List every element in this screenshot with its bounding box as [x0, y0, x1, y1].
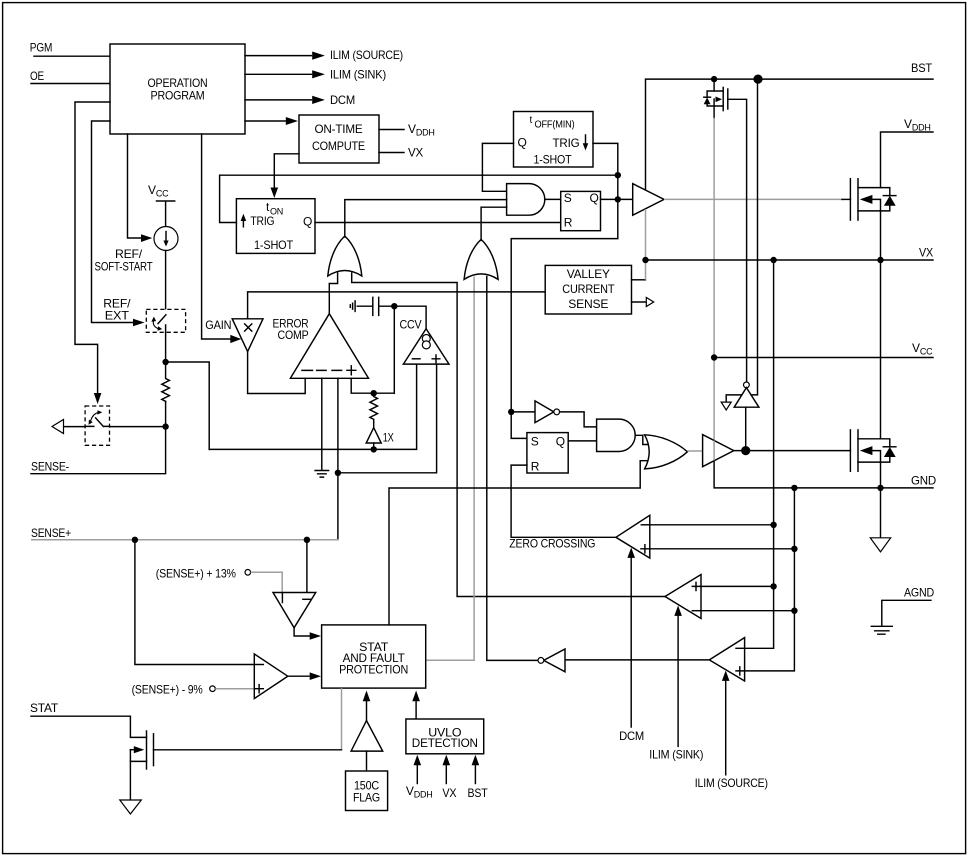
wire error comp plus input to feedback node [351, 378, 394, 393]
wire operation program to ext switch [75, 102, 110, 404]
wire SENSE+ (gray) [31, 539, 339, 541]
wire VX output of on-time compute [379, 152, 404, 154]
svg-text:AGND: AGND [904, 586, 934, 600]
svg-text:FLAG: FLAG [353, 791, 380, 805]
ground arrow below STAT MOSFET [120, 800, 142, 814]
wire STAT gate from fault block (gray) [341, 688, 343, 749]
label GND (pin) [911, 474, 937, 488]
label VCC (reference supply) [148, 183, 169, 199]
driver low-side [703, 435, 734, 467]
junction VX driver [642, 257, 648, 263]
input label PGM [30, 41, 53, 55]
svg-text:1X: 1X [383, 430, 394, 444]
junction zero crossing plus node [791, 546, 797, 552]
block UVLO DETECTION [406, 719, 484, 754]
wire soft-start node to reference rail [166, 362, 210, 449]
svg-text:DCM: DCM [330, 93, 355, 107]
svg-text:SOFT-START: SOFT-START [95, 260, 154, 274]
junction feedback node [371, 390, 377, 396]
svg-text:EXT: EXT [105, 309, 130, 323]
wire valley sense output arrow [632, 298, 654, 307]
wire UVLO to stat block [412, 691, 420, 720]
label BST (UVLO input) [468, 786, 489, 800]
resistor compensation [370, 393, 378, 422]
wire cap to CCV output [379, 306, 426, 329]
wire valley sense to VX node (gray riser) [632, 279, 646, 281]
wire driver1 output to high-side gate (gray) [664, 198, 843, 200]
svg-text:VX: VX [408, 146, 423, 160]
label SENSE+ [31, 526, 71, 540]
wire AND to SR latch S [545, 198, 561, 200]
wire resistor to sense node [165, 402, 167, 427]
junction driver2 output [741, 446, 750, 455]
wire BST FET gate to inverter [728, 99, 747, 382]
svg-text:ILIM (SINK): ILIM (SINK) [330, 68, 386, 82]
wire sense+ riser to error comp [337, 378, 339, 540]
svg-text:Q: Q [590, 191, 599, 205]
svg-text:t: t [530, 115, 533, 126]
inverter BST refresh [721, 79, 759, 410]
wire -9% to UVP comparator (gray) [215, 688, 254, 690]
svg-text:ZERO CROSSING: ZERO CROSSING [509, 536, 595, 550]
wire on-time compute to tON trigger [271, 154, 300, 198]
and-gate AND2 [597, 419, 636, 451]
supply bar VCC [157, 201, 175, 227]
label ILIM (SINK) [649, 747, 703, 761]
wire ext switch to off-page buffer [64, 426, 86, 428]
wire VX rail [646, 259, 934, 261]
label ILIM (SOURCE) [695, 776, 768, 790]
svg-text:TRIG: TRIG [553, 136, 580, 150]
wire Q feedback to lower latch S [511, 199, 618, 438]
wire reference rail to CCV minus [209, 364, 416, 449]
block OPERATION PROGRAM [110, 44, 245, 134]
label VX (pin) [919, 246, 933, 260]
label VX (UVLO input) [442, 786, 456, 800]
label ILIM (SINK) [330, 68, 386, 82]
wire operation program to GAIN input [202, 134, 242, 343]
wire VDDH rail [881, 132, 934, 188]
svg-text:DETECTION: DETECTION [412, 736, 478, 750]
wire SR Q to high-side driver [601, 198, 633, 200]
wire cap node riser [393, 306, 395, 393]
comparator OVP (down) [273, 593, 316, 628]
svg-text:SENSE-: SENSE- [31, 459, 69, 473]
wire ILIM SINK arrow [674, 606, 682, 747]
wire OR1 output to AND input [345, 200, 507, 237]
svg-text:PROTECTION: PROTECTION [339, 662, 408, 676]
svg-text:SENSE+: SENSE+ [31, 526, 71, 540]
wire inverter to AND2 [560, 412, 597, 427]
svg-text:COMPUTE: COMPUTE [312, 139, 365, 153]
wire zero crossing output to SR2 R [511, 465, 616, 537]
svg-text:(SENSE+) - 9%: (SENSE+) - 9% [132, 683, 203, 697]
svg-text:GND: GND [911, 474, 937, 488]
amplifier GAIN [232, 319, 263, 352]
svg-text:SENSE: SENSE [568, 297, 608, 311]
wire GAIN output to error comp input [248, 352, 306, 394]
wire SENSE+ to UVP comparator [135, 540, 254, 665]
label SENSE- [31, 459, 69, 473]
wire ILIM(SOURCE) output [245, 52, 325, 60]
wire SENSE+ to OVP comparator [306, 540, 308, 604]
comparator UVP (right) [254, 654, 287, 699]
wire sense node to ext switch [109, 426, 165, 428]
svg-text:GAIN: GAIN [205, 318, 231, 332]
inverter low-side blank [538, 649, 565, 672]
wire VX into UVLO [443, 755, 451, 784]
block 150C FLAG [346, 771, 388, 811]
junction sink minus node [791, 608, 797, 614]
label DCM [330, 93, 355, 107]
buffer 1X [366, 422, 381, 443]
label ERROR COMP [273, 317, 309, 343]
sr-latch main [561, 191, 601, 231]
transistor high-side MOSFET [850, 179, 896, 260]
wire VDDH into UVLO [414, 755, 422, 784]
svg-text:CURRENT: CURRENT [562, 282, 615, 296]
svg-text:(SENSE+) + 13%: (SENSE+) + 13% [156, 566, 236, 580]
driver high-side [633, 184, 664, 216]
wire 1X output to reference rail [373, 443, 375, 449]
label VDDH (UVLO input) [406, 784, 433, 800]
label VCC (pin) [912, 341, 933, 357]
junction cap node [391, 303, 397, 309]
label VX [408, 146, 423, 160]
wire TRIG node to Q line [617, 175, 619, 199]
wire inverter input from gate node [745, 407, 747, 450]
junction 1X output [371, 446, 377, 452]
wire OVP comparator to stat block [294, 628, 321, 640]
wire DCM output [245, 96, 325, 104]
resistor soft-start [162, 362, 170, 402]
svg-text:COMP: COMP [278, 328, 309, 342]
wire gate line [154, 749, 342, 751]
ground at error comp [315, 471, 329, 478]
wire source comparator minus input [745, 260, 774, 648]
wire driver1 to VX (gray) [645, 209, 647, 260]
label AGND [904, 586, 934, 600]
label VDDH (pin) [904, 117, 931, 133]
label STAT [30, 701, 59, 715]
junction inverter input node [508, 409, 514, 415]
wire tON TRIG feedback loop [220, 175, 618, 222]
svg-text:R: R [564, 216, 573, 230]
wire error comp output to OR1 input [329, 273, 337, 314]
svg-text:Q: Q [556, 435, 565, 449]
wire OE to operation program [31, 83, 110, 85]
junction CCV plus node [335, 470, 341, 476]
label VDDH [408, 122, 435, 138]
junction soft-start node [162, 359, 168, 365]
svg-text:PGM: PGM [30, 41, 53, 55]
wire switch1 to soft-start node [165, 325, 167, 362]
buffer 150C flag [351, 721, 383, 752]
block VALLEY CURRENT SENSE [545, 265, 631, 314]
junction SENSE+ right [304, 537, 310, 543]
input label OE [30, 69, 44, 83]
block STAT AND FAULT PROTECTION [322, 625, 426, 688]
or-gate OR3 [645, 435, 688, 469]
label BST [911, 61, 933, 75]
or-gate OR1 (min off-time OR) [328, 236, 362, 276]
svg-text:R: R [531, 460, 540, 474]
wire GAIN top to valley current sense [248, 292, 546, 319]
sr-latch zero-cross [527, 433, 568, 474]
junction VX sense [770, 257, 776, 263]
svg-text:BST: BST [911, 61, 933, 75]
wire DCM enable arrow [627, 548, 635, 728]
wire source comparator plus input [745, 488, 795, 671]
svg-text:STAT: STAT [30, 701, 59, 715]
svg-text:S: S [531, 435, 539, 449]
junction Q node [615, 196, 621, 202]
wire +13% to OVP comparator (gray) [251, 572, 283, 592]
label ZERO CROSSING [509, 536, 595, 550]
wire VDDH output of on-time compute [379, 129, 404, 131]
clamp amp CCV [403, 329, 449, 364]
svg-text:ILIM (SOURCE): ILIM (SOURCE) [330, 48, 403, 62]
junction TRIG node [615, 172, 621, 178]
wire CCV plus input [338, 364, 437, 473]
wire VCC rail [714, 357, 933, 359]
node circle +13% [245, 570, 251, 576]
transistor BST switch FET [704, 79, 728, 118]
switch EXT ref [85, 406, 109, 445]
wire 150C box to buffer [366, 751, 368, 771]
svg-text:VX: VX [442, 786, 456, 800]
wire ILIM SOURCE arrow [722, 671, 730, 775]
svg-text:S: S [564, 191, 572, 205]
wire current source to switch1 [165, 251, 167, 313]
wire inverted comparator to OR2 input [487, 277, 538, 661]
ground AGND earth [871, 626, 892, 634]
svg-text:1-SHOT: 1-SHOT [254, 238, 294, 252]
svg-text:1-SHOT: 1-SHOT [534, 153, 573, 167]
wire zero crossing plus input [650, 548, 795, 550]
junction sense- node [162, 423, 168, 429]
one-shot tON 1-SHOT [236, 199, 315, 254]
junction BST FET drain [711, 76, 717, 82]
wire tOFF Q to AND gate [482, 143, 513, 191]
wire PGM to operation program [34, 55, 110, 57]
wire AGND stub [882, 600, 931, 626]
junction SENSE+ left [132, 537, 138, 543]
svg-text:Q: Q [303, 215, 312, 229]
svg-text:ON-TIME: ON-TIME [315, 122, 363, 136]
wire sink comparator plus input [701, 585, 774, 587]
junction GND FET [877, 485, 883, 491]
wire error comp input to analog ground [321, 378, 323, 469]
junction BST inverter supply [753, 75, 762, 84]
svg-text:VX: VX [919, 246, 933, 260]
label CCV [400, 317, 422, 331]
label 1X [383, 430, 394, 444]
wire current-limit comparator output to OR1 input [352, 273, 665, 597]
comparator ILIM SOURCE [709, 638, 744, 681]
svg-text:TRIG: TRIG [250, 214, 274, 228]
and-gate U1 main pulse AND [507, 184, 545, 216]
wire 150C flag to stat block [363, 691, 371, 721]
current source REF/SOFT-START [154, 227, 178, 251]
ground arrow below GND rail [870, 488, 890, 552]
capacitor compensation [350, 297, 378, 315]
label (SENSE+) + 13% [156, 566, 236, 580]
label (SENSE+) - 9% [132, 683, 203, 697]
one-shot tOFF(MIN) 1-SHOT [514, 112, 594, 168]
junction GND sense [791, 485, 797, 491]
wire BST into UVLO [472, 755, 480, 784]
junction VX FET [877, 257, 883, 263]
inverter Q-bar [511, 401, 559, 423]
wire tOFF TRIG from Q node [593, 143, 618, 175]
wire operation program to on-time compute [245, 117, 298, 125]
wire OR3 to low-side driver (gray) [687, 450, 702, 452]
svg-text:DCM: DCM [619, 729, 644, 743]
wire operation program to switch1 [92, 121, 145, 326]
label DCM (bottom) [619, 729, 644, 743]
wire tON Q to SR latch R [315, 222, 561, 224]
svg-text:ILIM (SINK): ILIM (SINK) [649, 747, 703, 761]
svg-text:OFF(MIN): OFF(MIN) [535, 119, 575, 131]
wire source comparator output to inverter [565, 659, 709, 661]
label REF/SOFT-START [95, 247, 154, 274]
off-page connector triangle [52, 420, 64, 434]
svg-text:ILIM (SOURCE): ILIM (SOURCE) [695, 776, 768, 790]
svg-text:Q: Q [518, 136, 527, 150]
switch REF/EXT select [146, 309, 185, 332]
comparator ILIM SINK [665, 575, 701, 619]
svg-text:VALLEY: VALLEY [567, 267, 610, 281]
wire AND2 to OR3 [635, 435, 649, 444]
wire STAT fault to OR2 input (gray) [426, 277, 474, 661]
junction sink plus node [770, 583, 776, 589]
block ON-TIME COMPUTE [299, 115, 379, 163]
wire ILIM(SINK) output [245, 70, 325, 78]
svg-text:BST: BST [468, 786, 489, 800]
wire zero crossing minus input [650, 524, 774, 526]
wire sink comparator minus input [701, 610, 794, 612]
op-amp ERROR COMP [290, 314, 368, 379]
wire driver2 to GND rail [714, 461, 933, 488]
wire OR2 output to AND input [481, 207, 507, 240]
wire STAT pin to open-drain MOSFET [31, 716, 147, 737]
wire BST rail [646, 79, 934, 190]
wire driver2 output to low-side gate [734, 450, 851, 452]
wire SR2 Q to AND2 [568, 440, 596, 442]
comparator ZERO CROSSING [616, 515, 650, 558]
wire operation program to current source [128, 134, 153, 242]
svg-text:CCV: CCV [400, 317, 422, 331]
wire SENSE- [31, 427, 166, 474]
or-gate OR2 (fault OR) [464, 239, 498, 279]
transistor low-side MOSFET [850, 260, 896, 488]
svg-text:PROGRAM: PROGRAM [151, 89, 205, 103]
wire STAT block top to fault OR rail [389, 461, 649, 625]
svg-text:OE: OE [30, 69, 44, 83]
wire UVP comparator to stat block [288, 672, 321, 680]
wire BST FET source to VCC and driver2 (gray) [713, 118, 715, 461]
node circle -9% [210, 686, 216, 692]
label REF/EXT [103, 297, 131, 323]
transistor STAT open-drain MOSFET [130, 731, 153, 800]
junction VCC driver2 [711, 354, 717, 360]
label ILIM (SOURCE) [330, 48, 403, 62]
junction zero crossing minus node [770, 522, 776, 528]
label GAIN [205, 318, 231, 332]
